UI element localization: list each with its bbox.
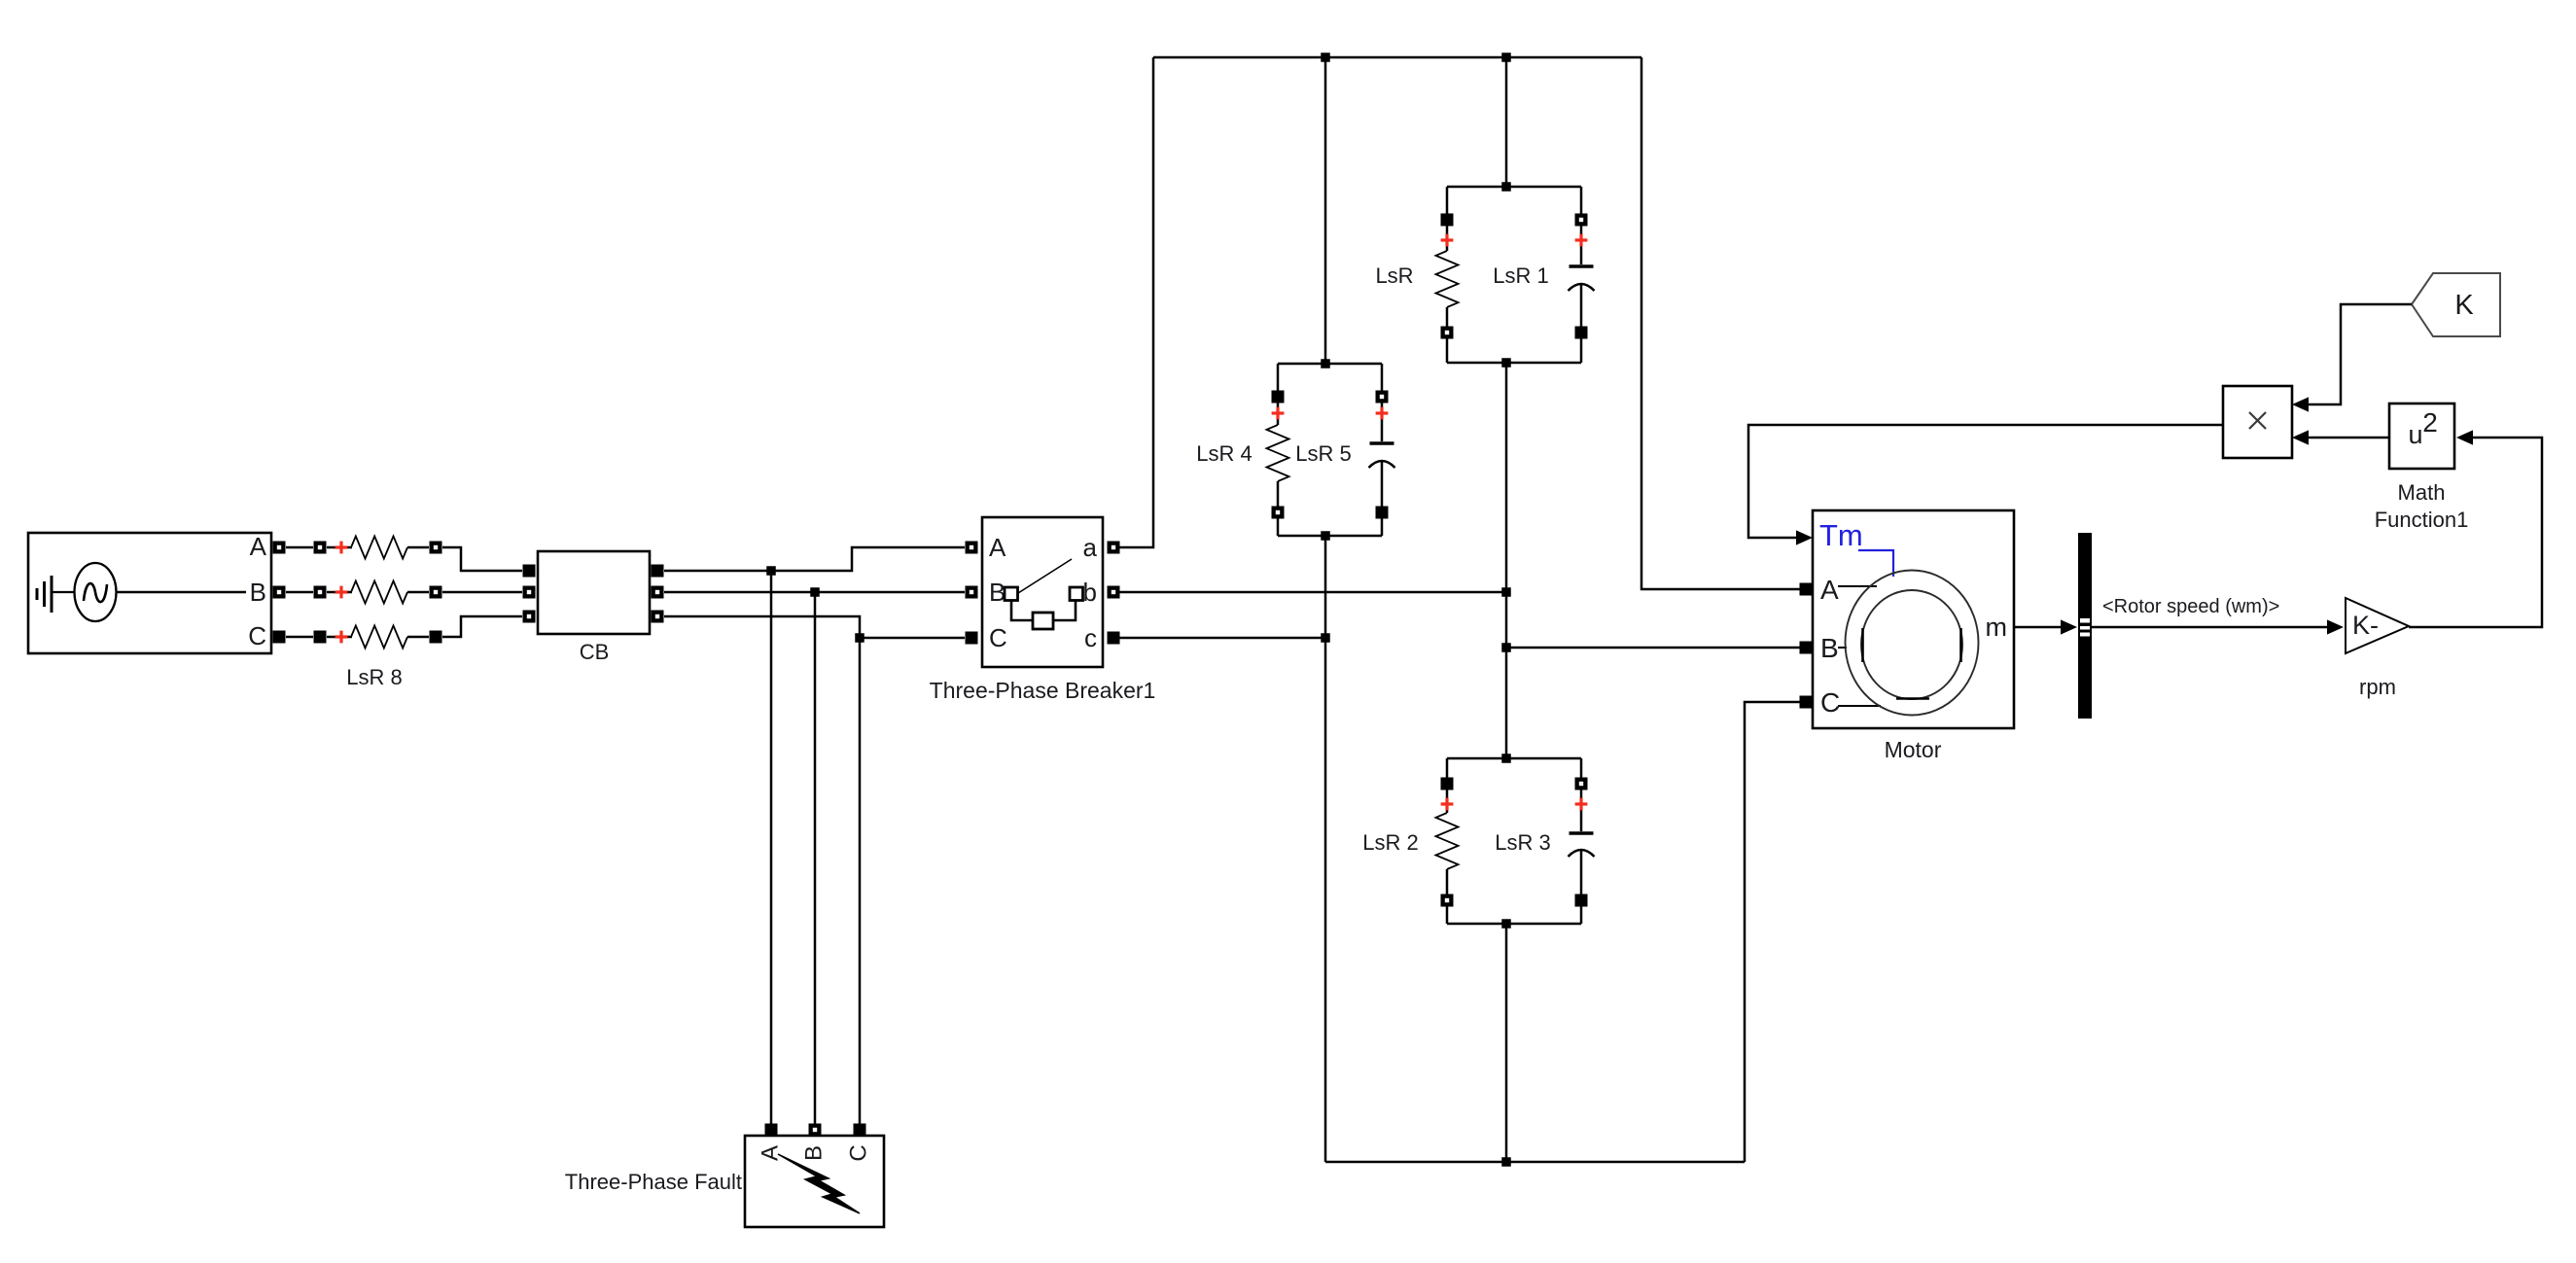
svg-text:C: C [989, 623, 1007, 652]
wire breaker a up to top rail [1119, 57, 1153, 547]
wire CB C to breaker C [664, 616, 965, 638]
svg-text:b: b [1083, 578, 1097, 607]
breaker pin label a [1083, 533, 1098, 562]
svg-text:A: A [989, 533, 1006, 562]
svg-text:LsR 5: LsR 5 [1295, 441, 1351, 466]
junction motor B branch [1501, 643, 1511, 652]
arrow into bus selector [2061, 619, 2077, 634]
LsR 8 label [346, 665, 402, 689]
wire riser x1549 middle [1505, 363, 1508, 758]
resistor LsR 4 [1267, 425, 1289, 481]
CB label [580, 640, 610, 664]
wire phase A resistor to CB [442, 547, 522, 571]
breaker output port c [1108, 632, 1120, 645]
motor pin label m [1986, 613, 2008, 642]
source port label C [248, 621, 266, 650]
svg-text:<Rotor speed (wm)>: <Rotor speed (wm)> [2102, 596, 2279, 617]
junction phase A fault tap [766, 566, 776, 576]
CB output port C [652, 611, 664, 623]
wire from tag K to product [2308, 304, 2412, 404]
block Motor [1813, 510, 2014, 728]
capacitor LsR 1 [1569, 266, 1595, 291]
wire resistor lower lead loop3 [1446, 869, 1449, 895]
wire riser x1549 upper [1505, 57, 1508, 187]
port square C left of LsR 8 [314, 631, 327, 644]
bus selector bar [2078, 533, 2092, 719]
junction bottom rail [1501, 1157, 1511, 1167]
wire capacitor lower lead loop3 [1580, 850, 1583, 895]
breaker switch contact right [1070, 587, 1083, 601]
LsR 4 label [1196, 441, 1252, 466]
rpm label [2359, 675, 2396, 699]
product multiply sign [2249, 412, 2266, 429]
polarity + marker LsR 8 A [335, 542, 348, 554]
fault pin label B rotated [800, 1145, 827, 1161]
resistor LsR 8 phase B [351, 581, 407, 604]
junction top rail / LsR4 branch [1321, 53, 1330, 62]
arrow into Math Function1 [2456, 430, 2473, 444]
svg-text:C: C [845, 1144, 871, 1161]
bus selector signal marks [2080, 618, 2090, 637]
polarity + marker LsR 8 C [335, 631, 348, 644]
port square capacitor bottom loop2 [1376, 507, 1389, 519]
wire loop top loop3 [1447, 757, 1581, 760]
source output port C [273, 631, 286, 644]
gain value text K- [2352, 611, 2379, 640]
svg-text:B: B [250, 578, 266, 607]
junction top rail / LsR branch [1501, 53, 1511, 62]
svg-text:LsR 1: LsR 1 [1493, 263, 1548, 288]
wire loop top-right drop loop1 [1580, 187, 1583, 214]
wire resistor lower lead loop2 [1277, 481, 1280, 507]
breaker pin label A [989, 533, 1006, 562]
polarity + marker LsR 8 B [335, 586, 348, 599]
wire into resistor A [327, 546, 352, 549]
wire CB A to breaker A [664, 547, 965, 571]
wire phase B resistor to CB [442, 591, 522, 594]
wire loop top-left drop loop3 [1446, 758, 1449, 778]
port square capacitor top loop3 [1575, 778, 1588, 790]
svg-text:B: B [800, 1145, 827, 1161]
svg-text:K-: K- [2352, 611, 2379, 640]
block product [2223, 386, 2292, 458]
wire riser x1363 upper [1324, 57, 1327, 364]
signal name label <Rotor speed (wm)> [2102, 596, 2279, 617]
AC voltage source symbol [75, 563, 117, 621]
from tag K [2412, 273, 2500, 336]
wire loop top-left drop loop2 [1277, 364, 1280, 391]
wire breaker b to node [1119, 591, 1506, 594]
source output port A [273, 542, 286, 554]
ground [37, 576, 75, 613]
port square resistor bottom loop2 [1272, 507, 1285, 519]
wire bottom rail up to motor C [1745, 702, 1800, 1162]
port square capacitor bottom loop3 [1575, 895, 1588, 907]
junction loop top loop3 [1501, 754, 1511, 763]
polarity + marker LsR [1441, 234, 1454, 247]
svg-text:C: C [1820, 687, 1840, 718]
CB output port B [652, 586, 664, 599]
junction loop top loop2 [1321, 359, 1330, 368]
wire loop top-right drop loop2 [1381, 364, 1384, 391]
svg-text:a: a [1083, 533, 1098, 562]
wire resistor upper lead loop2 [1277, 403, 1280, 425]
port square A right of LsR 8 [430, 542, 442, 554]
from tag K text [2454, 290, 2474, 321]
fault pin label C rotated [845, 1144, 871, 1161]
wire loop top loop2 [1278, 363, 1382, 366]
gain block rpm triangle [2346, 598, 2409, 653]
junction phase C fault tap [855, 633, 865, 643]
wire capacitor lower lead loop2 [1381, 461, 1384, 507]
LsR 5 label [1295, 441, 1351, 466]
CB input port A [523, 565, 536, 578]
wire capacitor upper lead loop3 [1580, 789, 1583, 831]
svg-text:C: C [248, 621, 266, 650]
svg-text:rpm: rpm [2359, 675, 2396, 699]
resistor LsR [1436, 251, 1459, 307]
wire gain rpm to Math Function1 [2409, 438, 2542, 627]
breaker switch wire left [1011, 601, 1033, 620]
breaker output port a [1108, 542, 1120, 554]
wire node to motor B [1506, 647, 1800, 649]
breaker switch wire right [1053, 601, 1076, 620]
wire breaker c to phase C riser [1119, 637, 1325, 640]
block CB [538, 551, 650, 634]
svg-text:LsR: LsR [1375, 263, 1413, 288]
fault pin label A rotated [757, 1145, 783, 1161]
motor pin lead A [1838, 585, 1877, 587]
breaker input port B [966, 586, 978, 599]
wire fault tap B down [814, 592, 817, 1124]
fault input port C [854, 1124, 866, 1137]
wire source C to series resistor [286, 636, 313, 639]
wire bus selector to gain rpm [2092, 626, 2328, 629]
polarity + marker LsR 1 [1575, 234, 1588, 247]
Three-Phase Fault label [565, 1170, 742, 1194]
wire riser x1549 lower [1505, 924, 1508, 1162]
wire riser x1363 lower [1324, 536, 1327, 1162]
wire top rail down to motor A [1641, 57, 1800, 589]
wire product output to motor Tm [1748, 425, 2223, 538]
breaker pin label B [989, 578, 1006, 607]
svg-text:2: 2 [2422, 407, 2438, 438]
wire resistor lower lead loop1 [1446, 307, 1449, 327]
resistor LsR 8 phase A [351, 537, 407, 559]
LsR label [1375, 263, 1413, 288]
wire loop bottom loop3 [1447, 923, 1581, 926]
svg-text:Tm: Tm [1819, 518, 1863, 552]
CB input port C [523, 611, 536, 623]
motor stator circle [1846, 571, 1979, 716]
wire resistor upper lead loop3 [1446, 789, 1449, 813]
breaker pin label b [1083, 578, 1097, 607]
arrow into product lower input [2292, 430, 2309, 444]
wire loop top loop1 [1447, 186, 1581, 189]
wire loop bottom-left loop3 [1446, 906, 1449, 924]
wire loop bottom-right loop3 [1580, 906, 1583, 924]
fault lightning bolt [778, 1154, 860, 1213]
svg-text:A: A [757, 1145, 783, 1161]
port square B left of LsR 8 [314, 586, 327, 599]
wire capacitor upper lead loop1 [1580, 226, 1583, 264]
polarity + marker LsR 5 [1376, 407, 1389, 420]
breaker pin label c [1084, 623, 1097, 652]
CB output port A [652, 565, 664, 578]
source port label A [250, 532, 267, 561]
port square resistor bottom loop3 [1441, 895, 1454, 907]
motor input port C [1800, 696, 1813, 709]
capacitor LsR 3 [1569, 833, 1595, 857]
motor rotor flat right [1959, 628, 1962, 662]
arrow into gain rpm [2327, 619, 2344, 634]
motor pin lead B [1838, 647, 1847, 649]
port square B right of LsR 8 [430, 586, 442, 599]
wire loop top-right drop loop3 [1580, 758, 1583, 778]
port square resistor bottom loop1 [1441, 327, 1454, 339]
breaker output port b [1108, 586, 1120, 599]
svg-text:A: A [250, 532, 267, 561]
svg-text:LsR 4: LsR 4 [1196, 441, 1252, 466]
junction loop bottom loop3 [1501, 919, 1511, 929]
Math Function1 label line1 [2398, 480, 2446, 505]
junction c wire on phase C riser [1321, 633, 1330, 643]
source port label B [250, 578, 266, 607]
breaker input port C [966, 632, 978, 645]
block Math Function1 [2389, 403, 2454, 469]
LsR 1 label [1493, 263, 1548, 288]
motor Tm blue link [1858, 550, 1893, 577]
port square resistor top loop3 [1441, 778, 1454, 790]
breaker input port A [966, 542, 978, 554]
wire capacitor upper lead loop2 [1381, 403, 1384, 441]
svg-text:CB: CB [580, 640, 610, 664]
breaker switch contact left [1005, 587, 1018, 601]
wire fault tap C down [859, 638, 862, 1124]
wire resistor upper lead loop1 [1446, 226, 1449, 251]
polarity + marker LsR 3 [1575, 798, 1588, 811]
block Three-Phase Fault [745, 1136, 884, 1227]
svg-text:LsR 3: LsR 3 [1495, 830, 1550, 855]
junction loop bottom loop1 [1501, 358, 1511, 368]
wire Math Function1 to product [2308, 437, 2389, 439]
svg-text:A: A [1820, 575, 1839, 605]
polarity + marker LsR 4 [1272, 407, 1285, 420]
wire into resistor B [327, 591, 352, 594]
wire loop bottom-right loop2 [1381, 518, 1384, 536]
wire into resistor C [327, 636, 352, 639]
svg-text:LsR 8: LsR 8 [346, 665, 402, 689]
port square resistor top loop2 [1272, 391, 1285, 403]
wire motor m to bus selector [2014, 626, 2062, 629]
resistor LsR 2 [1436, 813, 1459, 869]
wire loop bottom-left loop2 [1277, 518, 1280, 536]
wire CB B to breaker B [664, 591, 965, 594]
svg-text:Motor: Motor [1885, 737, 1942, 762]
wire loop top-left drop loop1 [1446, 187, 1449, 214]
port square C right of LsR 8 [430, 631, 442, 644]
svg-text:Three-Phase Breaker1: Three-Phase Breaker1 [930, 678, 1156, 703]
fault input port A [765, 1124, 778, 1137]
wire source B to series resistor [286, 591, 313, 594]
port square capacitor top loop2 [1376, 391, 1389, 403]
LsR 2 label [1362, 830, 1418, 855]
motor pin label Tm [1819, 518, 1863, 552]
capacitor LsR 5 [1369, 443, 1395, 468]
motor pin label A [1820, 575, 1839, 605]
Three-Phase Breaker1 label [930, 678, 1156, 703]
breaker switch coil box [1033, 613, 1053, 629]
top rail wire [1153, 56, 1641, 59]
port square capacitor top loop1 [1575, 214, 1588, 227]
LsR 3 label [1495, 830, 1550, 855]
motor pin label C [1820, 687, 1840, 718]
wire loop bottom loop2 [1278, 535, 1382, 538]
wire source A to series resistor [286, 546, 313, 549]
motor input arrow Tm [1796, 530, 1813, 544]
svg-text:m: m [1986, 613, 2008, 642]
svg-text:Three-Phase Fault: Three-Phase Fault [565, 1170, 742, 1194]
breaker switch lever [1018, 559, 1072, 593]
Motor label [1885, 737, 1942, 762]
Math Function1 label line2 [2375, 508, 2469, 532]
motor rotor flat bottom [1896, 697, 1929, 700]
fault input port B [809, 1124, 822, 1137]
bottom rail wire [1325, 1161, 1745, 1164]
wire capacitor lower lead loop1 [1580, 284, 1583, 327]
motor input port B [1800, 642, 1813, 654]
port square A left of LsR 8 [314, 542, 327, 554]
motor rotor flat left [1861, 628, 1864, 662]
wire loop bottom-left loop1 [1446, 338, 1449, 363]
arrow into product upper input [2292, 397, 2309, 411]
wire out of resistor A [407, 546, 429, 549]
block Three-Phase Breaker1 [982, 517, 1103, 667]
junction loop top loop1 [1501, 182, 1511, 192]
polarity + marker LsR 2 [1441, 798, 1454, 811]
wire loop bottom-right loop1 [1580, 338, 1583, 363]
wire loop bottom loop1 [1447, 362, 1581, 365]
motor pin lead C [1838, 705, 1881, 707]
CB input port B [523, 586, 536, 599]
wire source internal to port B [117, 591, 247, 594]
junction phase B fault tap [810, 587, 820, 597]
junction b wire on phase B riser [1501, 587, 1511, 597]
junction loop bottom loop2 [1321, 531, 1330, 541]
source output port B [273, 586, 286, 599]
wire phase C resistor to CB [442, 616, 522, 637]
svg-text:B: B [1820, 633, 1839, 663]
svg-text:LsR 2: LsR 2 [1362, 830, 1418, 855]
wire out of resistor C [407, 636, 429, 639]
svg-text:u: u [2408, 420, 2422, 449]
three-phase programmable voltage source block [28, 533, 271, 653]
port square capacitor bottom loop1 [1575, 327, 1588, 339]
motor pin label B [1820, 633, 1839, 663]
motor input port A [1800, 583, 1813, 596]
wire out of resistor B [407, 591, 429, 594]
port square resistor top loop1 [1441, 214, 1454, 227]
math function u^2 text [2408, 407, 2437, 449]
svg-text:K: K [2454, 290, 2474, 321]
svg-text:c: c [1084, 623, 1097, 652]
svg-text:Function1: Function1 [2375, 508, 2469, 532]
svg-text:Math: Math [2398, 480, 2446, 505]
breaker pin label C [989, 623, 1007, 652]
motor rotor circle [1861, 590, 1962, 699]
wire fault tap A down [770, 571, 773, 1124]
resistor LsR 8 phase C [351, 626, 407, 649]
